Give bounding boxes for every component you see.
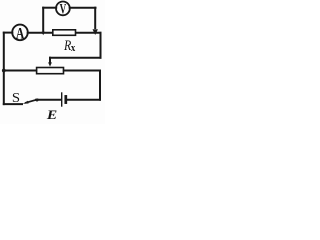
svg-text:V: V (60, 0, 67, 17)
svg-text:R: R (63, 37, 71, 53)
svg-text:E: E (46, 108, 57, 122)
svg-text:A: A (16, 25, 25, 43)
svg-text:x: x (71, 42, 75, 54)
svg-text:S: S (12, 90, 20, 106)
